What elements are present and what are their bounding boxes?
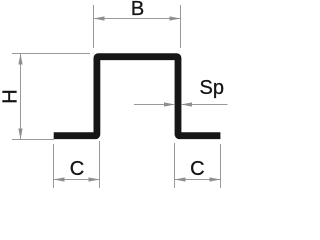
dimension C right extension line outer [220,144,222,188]
dimension B extension line right [180,5,182,48]
dimension B line [94,18,180,20]
dimension C right arrowhead right [210,177,221,181]
svg-text:H: H [0,89,22,103]
dimension C right line [175,179,220,181]
dimension C left line [54,179,99,181]
dimension C right arrowhead left [175,177,186,181]
svg-text:C: C [190,158,204,180]
dimension B arrowhead left [94,16,105,20]
dimension B arrowhead right [170,16,181,20]
dimension H line [20,54,22,139]
dimension H arrowhead bottom [18,129,22,140]
dimension C left arrowhead right [89,177,100,181]
dimension Sp inner arrowhead [164,102,175,106]
dimension H extension line bottom [12,139,54,141]
dimension B extension line left [93,5,95,48]
dimension Sp inner arrow line [134,104,174,106]
dimension C left arrowhead left [54,177,65,181]
dimension H extension line top [12,53,90,55]
dimension C right extension line inner [174,143,176,188]
svg-text:Sp: Sp [200,77,224,99]
dimension Sp outer arrow line [182,104,228,106]
svg-text:C: C [70,158,84,180]
dimension H arrowhead top [18,54,22,65]
dimension Sp outer arrowhead [181,102,192,106]
dimension C left extension line inner [99,141,101,188]
hat profile cross-section [54,57,221,136]
dimension C left extension line outer [53,144,55,188]
svg-text:B: B [131,0,144,20]
